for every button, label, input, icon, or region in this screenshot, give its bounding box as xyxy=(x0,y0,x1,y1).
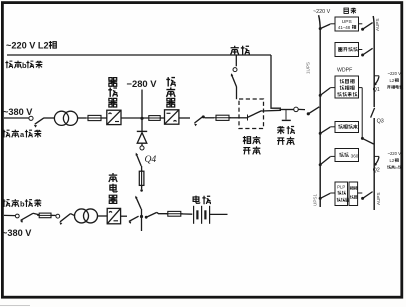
branch6 pivot xyxy=(361,197,364,200)
fuse F2 xyxy=(147,116,162,121)
switch Q1 blade xyxy=(375,76,379,83)
switch QS2 arrowhead xyxy=(193,122,197,126)
switch Q1 dot xyxy=(374,83,377,86)
rectifier U1 box xyxy=(107,110,121,124)
branch6 right wire xyxy=(358,192,363,194)
label a duan-lai xyxy=(25,130,41,138)
load box B6b xyxy=(349,182,358,206)
switch QS1 blade xyxy=(35,118,44,124)
switch QS5 arrowhead xyxy=(20,219,24,222)
label baoan-a from xyxy=(2,130,18,138)
bypass drop to static switch xyxy=(235,55,237,66)
branch5 left bus tap xyxy=(319,163,322,166)
transformer T2 winding 1 xyxy=(75,209,89,223)
switch QS4 blade xyxy=(136,197,141,209)
Q2 tap tick xyxy=(374,155,379,157)
fuse F5 xyxy=(37,213,53,218)
label B6a 保护屏 xyxy=(337,198,349,202)
svg-text:Q1: Q1 xyxy=(373,87,380,93)
manual switch post drop xyxy=(285,110,287,120)
label duan-lai lower xyxy=(25,199,41,207)
label 段 baoan xyxy=(398,165,401,169)
svg-text:360: 360 xyxy=(351,153,359,158)
switch Q2 blade xyxy=(376,157,379,164)
static switch inner wire xyxy=(240,117,248,119)
svg-text:b: b xyxy=(22,61,27,70)
static switch output wire xyxy=(262,109,281,112)
label load 负载 xyxy=(344,8,356,14)
branch5 left wire xyxy=(330,155,335,157)
rotated label AUPS top xyxy=(375,18,380,31)
branch2 right pivot xyxy=(361,54,364,57)
switch Q4 blade xyxy=(136,154,141,166)
label 相 work xyxy=(395,78,399,82)
load box B5 xyxy=(335,149,359,162)
branch1 left blade xyxy=(320,24,330,29)
wire 380V input xyxy=(4,117,29,119)
bypass switch QS3 contact xyxy=(233,68,237,72)
stub below junction xyxy=(141,217,143,232)
Q1 tap tick xyxy=(374,75,379,77)
fuse F3 xyxy=(214,115,231,120)
label B4 text xyxy=(338,124,357,128)
rotated label 1UPS left bus xyxy=(306,62,311,74)
svg-text:~220 V: ~220 V xyxy=(313,9,331,15)
bypass right leg xyxy=(271,55,281,108)
junction below F4 xyxy=(140,189,143,192)
wire Q4 to fuse F4 xyxy=(141,166,143,171)
branch3 right wire xyxy=(359,87,363,89)
label B3 line1 xyxy=(340,79,354,83)
switch Q4 contact xyxy=(140,146,144,150)
label baoan-b lower xyxy=(2,199,18,207)
wire node to diode xyxy=(141,118,143,131)
wire F4 down xyxy=(141,185,143,189)
switch QS6 contact xyxy=(56,214,60,218)
label battery 电池 xyxy=(193,196,210,205)
wire to transformer T1 xyxy=(44,117,55,119)
wire F1 to rectifier xyxy=(101,117,107,119)
wire F5 to contact xyxy=(51,214,56,216)
wire charger out xyxy=(121,215,127,217)
svg-text:1UPS: 1UPS xyxy=(306,62,311,74)
svg-text:41–48: 41–48 xyxy=(338,25,351,30)
bus AUPS lower xyxy=(373,118,375,210)
label B5 text xyxy=(339,153,348,157)
label manual switch 手动 xyxy=(277,126,294,134)
label 工作电源 xyxy=(387,85,403,89)
branch6 left bus tap xyxy=(319,197,322,200)
branch2 right blade xyxy=(363,48,373,55)
wire diode to contact xyxy=(141,143,143,145)
wire inverter out xyxy=(179,117,190,119)
wire F6 to battery xyxy=(181,213,193,215)
output wire to manual switch xyxy=(280,109,294,111)
load box B6a (PLP) xyxy=(335,182,348,206)
label B6b 设备 xyxy=(350,195,357,199)
switch Q4 arrowhead xyxy=(135,152,138,156)
branch1 right wire xyxy=(359,23,363,25)
branch2 right wire xyxy=(359,49,363,51)
transformer T1 winding 2 xyxy=(63,111,77,125)
switch QS7 blade xyxy=(129,216,139,221)
label 相 baoan xyxy=(395,158,399,162)
diode V1 triangle xyxy=(137,133,147,144)
wire QS2 to fuse F3 xyxy=(205,117,215,119)
manual switch post bar xyxy=(282,119,291,121)
bypass switch QS3 blade xyxy=(232,75,237,88)
svg-text:AUPS: AUPS xyxy=(375,18,380,31)
branch1 right pivot xyxy=(361,28,364,31)
switch QS7 arrowhead xyxy=(128,221,131,224)
load box B4 xyxy=(335,122,359,133)
svg-text:L2: L2 xyxy=(390,158,395,163)
label bypass 旁路 xyxy=(231,46,250,55)
node DC junction xyxy=(140,117,143,120)
branch4 left blade xyxy=(320,127,330,133)
bus UPS panel (left bus) xyxy=(319,15,321,207)
switch QS8 blade xyxy=(146,212,157,217)
svg-text:L2: L2 xyxy=(390,78,395,83)
rotated label UPS panel bottom xyxy=(313,194,318,206)
switch QS2 contact xyxy=(202,115,205,118)
svg-text:Q4: Q4 xyxy=(145,154,157,165)
svg-text:WDPF: WDPF xyxy=(337,68,352,74)
wire T1 to fuse F1 xyxy=(78,117,86,119)
switch QS4 arrowhead xyxy=(134,195,137,199)
wire to transformer T2 xyxy=(71,214,76,216)
svg-text:UPS1: UPS1 xyxy=(313,194,318,206)
diode V1 cathode bar xyxy=(137,130,147,132)
static switch blade xyxy=(248,111,262,118)
label inverter 逆变器 xyxy=(166,77,175,107)
branch3 blade to bus xyxy=(362,138,373,144)
switch QS5 contact xyxy=(15,214,19,218)
fuse F6 xyxy=(166,211,183,216)
svg-text:b: b xyxy=(20,200,25,209)
branch3 blade pivot xyxy=(361,137,364,140)
bypass feeder wire xyxy=(7,54,271,56)
charger U4 box xyxy=(107,208,120,223)
load box B2 xyxy=(335,43,359,57)
branch1 left bus tap xyxy=(319,27,322,30)
switch Q2 dot xyxy=(374,163,377,166)
branch6 left wire xyxy=(330,192,335,194)
wire ring to blade xyxy=(298,108,305,110)
branch3 left blade xyxy=(320,88,330,96)
switch QS1 contact xyxy=(29,116,33,120)
switch Q3 blade on bus xyxy=(371,108,375,118)
wire -280V stub xyxy=(141,90,143,119)
fuse F1 xyxy=(86,115,103,120)
label B6b 辅助 xyxy=(350,186,358,190)
label static switch 静态 xyxy=(243,136,260,144)
svg-text:~220 V: ~220 V xyxy=(388,151,402,156)
transformer T1 winding 1 xyxy=(54,111,68,125)
branch1 left wire xyxy=(330,23,335,25)
wire QS8 to fuse F6 xyxy=(157,212,168,213)
wire blade to fuse xyxy=(33,213,39,215)
label duan-lai xyxy=(26,61,42,69)
svg-text:~380 V: ~380 V xyxy=(2,228,32,238)
branch4 left bus tap xyxy=(319,132,322,135)
branch3 right drop xyxy=(361,88,363,138)
branch3 left bus tap xyxy=(319,94,322,97)
wire to battery line xyxy=(141,209,143,217)
label 机 xyxy=(352,25,356,29)
label B3 line2 xyxy=(340,86,354,90)
svg-text:~220 V L2: ~220 V L2 xyxy=(6,41,49,51)
switch QS5 blade xyxy=(21,213,33,220)
svg-text:Q2: Q2 xyxy=(373,168,380,174)
svg-text:PLP: PLP xyxy=(337,184,345,189)
wire rectifier to node xyxy=(121,117,148,119)
inverter U2 box xyxy=(165,110,179,124)
branch4 left wire xyxy=(330,126,335,128)
wire battery tail xyxy=(210,213,228,215)
switch QS6 arrowhead xyxy=(58,221,62,225)
label static switch 开关 xyxy=(243,146,260,154)
svg-text:~220 V: ~220 V xyxy=(388,71,402,76)
label L2-phase char xyxy=(49,41,56,49)
branch6 left blade xyxy=(320,193,330,198)
bypass switch QS3 arrowhead xyxy=(230,73,233,77)
branch3 left wire xyxy=(330,87,335,89)
transformer T2 winding 2 xyxy=(84,209,98,223)
label baoan-b from xyxy=(5,61,21,69)
svg-text:~380 V: ~380 V xyxy=(3,107,33,117)
fuse F4 vertical xyxy=(139,170,144,188)
svg-text:AUPS: AUPS xyxy=(376,192,381,205)
wire F3 to static switch xyxy=(229,117,240,119)
bottom scan artifact xyxy=(0,305,30,307)
manual switch contact ring xyxy=(294,107,299,112)
label B3 line3 xyxy=(337,92,357,96)
rotated label AUPS bottom xyxy=(376,192,381,205)
load box B3 (WDPF system) xyxy=(335,76,359,98)
label 保安b段 xyxy=(387,165,394,169)
battery GB xyxy=(194,206,210,224)
switch QS1 arrowhead xyxy=(33,124,37,128)
static switch U3 dashed box xyxy=(239,99,264,129)
static switch inner post xyxy=(247,115,249,121)
label rectifier 整流器 xyxy=(108,78,117,107)
label B6a 程控 xyxy=(337,191,345,195)
bypass drop into static box xyxy=(236,87,238,99)
node battery junction xyxy=(140,215,143,218)
wire F2 to inverter xyxy=(160,117,164,119)
label manual switch 开关 xyxy=(277,137,294,145)
switch QS8 pivot xyxy=(145,216,148,219)
svg-text:−280 V: −280 V xyxy=(127,78,158,89)
wire charger input xyxy=(4,214,15,216)
manual blade pivot xyxy=(307,112,310,115)
wire T2 to charger xyxy=(97,215,107,217)
branch1 right blade xyxy=(363,23,373,30)
branch5 left blade xyxy=(320,157,330,165)
bus AUPS (right bus) upper xyxy=(373,16,374,107)
svg-text:Q3: Q3 xyxy=(377,119,384,125)
branch6 blade xyxy=(363,192,373,199)
manual switch blade xyxy=(308,107,319,114)
switch QS2 blade xyxy=(195,117,203,123)
label charger 充电器 xyxy=(109,173,117,203)
switch QS6 blade xyxy=(60,214,71,222)
label B2 text xyxy=(338,47,357,51)
load box B1 (UPS) xyxy=(335,17,359,31)
